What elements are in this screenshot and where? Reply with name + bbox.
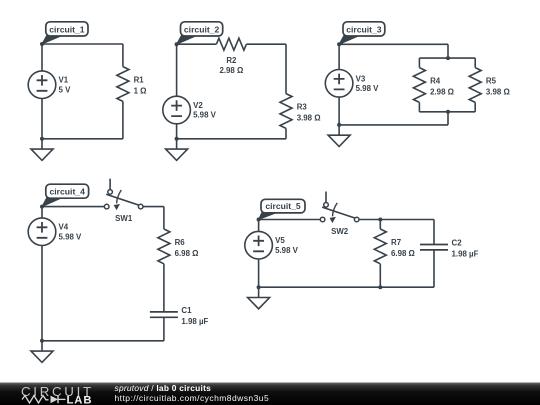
svg-text:5 V: 5 V [59, 85, 72, 94]
node c5 bottom-left [257, 285, 261, 289]
svg-text:V5: V5 [275, 236, 285, 245]
voltage source V1 [28, 71, 56, 99]
wire c2 left lower [176, 124, 178, 139]
wire c3 parallel top bar [419, 57, 475, 59]
label callout circuit_2 pointer [177, 35, 198, 44]
svg-text:V4: V4 [59, 223, 69, 232]
label callout circuit_3 box [343, 22, 385, 36]
footer bar [0, 383, 540, 405]
svg-text:circuit_5: circuit_5 [265, 201, 301, 211]
switch SW2 actuation arrow [333, 203, 338, 216]
wire c1 left upper [41, 44, 43, 71]
switch SW2 blade [322, 207, 355, 218]
voltage source V5 [245, 231, 273, 259]
wire c1 bottom [42, 138, 123, 140]
svg-text:R7: R7 [391, 238, 402, 247]
svg-text:V1: V1 [59, 76, 69, 85]
ground c1 stem [41, 139, 43, 149]
wire c4 top right [143, 206, 164, 208]
svg-text:circuit_3: circuit_3 [346, 24, 382, 34]
svg-text:R2: R2 [226, 56, 237, 65]
svg-text:3.98 Ω: 3.98 Ω [486, 88, 510, 97]
svg-text:2.98 Ω: 2.98 Ω [430, 88, 454, 97]
wire c4 left lower [41, 246, 43, 341]
capacitor C1 [150, 312, 178, 317]
switch SW1 actuation arrow [117, 190, 122, 203]
label callout circuit_2 box [181, 22, 223, 36]
node c3 top-left [337, 42, 341, 46]
label callout circuit_4 pointer [42, 197, 63, 206]
svg-text:circuit_1: circuit_1 [49, 24, 85, 34]
svg-text:1.98 µF: 1.98 µF [452, 250, 479, 259]
wire c5 top right [359, 219, 434, 221]
wire c5 R7 bottom stub [379, 264, 381, 287]
svg-text:5.98 V: 5.98 V [356, 84, 380, 93]
svg-text:SW2: SW2 [331, 227, 349, 236]
switch SW1 left terminal [104, 204, 109, 209]
wire c2 top left [177, 43, 217, 45]
svg-text:1 Ω: 1 Ω [134, 87, 147, 96]
wire c2 top right [246, 43, 286, 45]
wire c4 right mid [163, 264, 165, 312]
svg-text:6.98 Ω: 6.98 Ω [175, 249, 199, 258]
wire c3 R4 bottom stub [418, 102, 420, 111]
resistor R6 [158, 229, 170, 264]
wire c3 left lower [338, 97, 340, 125]
wire c4 right lower [163, 317, 165, 340]
label callout circuit_4 box [46, 184, 89, 198]
ground c2 stem [176, 139, 178, 149]
svg-text:5.98 V: 5.98 V [193, 111, 217, 120]
svg-text:LAB: LAB [67, 395, 93, 405]
node c2 bottom-left [175, 137, 179, 141]
ground c4 stem [41, 341, 43, 351]
ground c5 triangle [248, 298, 270, 309]
resistor R5 [469, 68, 481, 103]
svg-text:R3: R3 [297, 103, 308, 112]
wire c3 top [339, 43, 448, 45]
svg-text:circuit_4: circuit_4 [50, 187, 86, 197]
svg-text:R1: R1 [134, 76, 145, 85]
wire c2 left upper [176, 44, 178, 96]
resistor R1 [117, 67, 129, 102]
CircuitLab logo diode [51, 396, 59, 404]
node c3 bottom-left [337, 123, 341, 127]
label callout circuit_3 pointer [339, 35, 360, 44]
wire c4 left upper [41, 207, 43, 218]
ground c3 stem [338, 125, 340, 135]
switch SW1 right terminal [138, 204, 143, 209]
wire c5 left upper [258, 220, 260, 232]
node c1 top-left [40, 42, 44, 46]
svg-text:sprutovd / lab 0 circuits: sprutovd / lab 0 circuits [115, 383, 212, 393]
svg-text:R5: R5 [486, 77, 497, 86]
wire c4 right upper [163, 207, 165, 229]
svg-text:R6: R6 [175, 238, 186, 247]
wire c5 right lower [433, 250, 435, 287]
node c4 top-left [40, 205, 44, 209]
switch SW2 right terminal [354, 217, 359, 222]
node c5 R7 bottom [378, 285, 382, 289]
voltage source V2 [163, 96, 191, 124]
node c2 top-left [175, 42, 179, 46]
wire c2 right lower [285, 128, 287, 138]
label callout circuit_1 pointer [42, 35, 63, 44]
ground c3 triangle [328, 135, 350, 146]
ground c2 triangle [166, 149, 188, 160]
CircuitLab logo resistor squiggle [22, 396, 49, 404]
svg-text:V2: V2 [193, 101, 203, 110]
wire c5 right upper [433, 220, 435, 245]
node c5 R7 top [378, 218, 382, 222]
resistor R3 [280, 94, 292, 129]
node c3 parallel bottom [446, 110, 450, 114]
wire c3 parallel bottom bar [419, 111, 475, 113]
ground c5 stem [258, 287, 260, 297]
svg-text:C2: C2 [452, 239, 463, 248]
wire c5 bottom [259, 286, 434, 288]
wire c3 R4 top stub [418, 58, 420, 68]
wire c3 R5 bottom stub [474, 102, 476, 111]
svg-text:R4: R4 [430, 77, 441, 86]
node c4 bottom-left [40, 339, 44, 343]
switch SW1 blade [106, 194, 139, 205]
wire c5 top left [259, 219, 321, 221]
wire c3 drop to parallel [447, 44, 449, 58]
ground c1 triangle [31, 149, 53, 160]
svg-text:6.98 Ω: 6.98 Ω [391, 249, 415, 258]
wire c2 right upper [285, 44, 287, 93]
wire c5 left lower [258, 259, 260, 287]
switch SW1 stem [109, 179, 111, 190]
voltage source V4 [28, 218, 56, 246]
node c3 parallel top [446, 56, 450, 60]
wire c3 rise from parallel [447, 112, 449, 125]
label callout circuit_1 box [46, 22, 88, 36]
svg-text:http://circuitlab.com/cychm8dw: http://circuitlab.com/cychm8dwsn3u5 [115, 393, 270, 403]
wire c1 top [42, 43, 123, 45]
wire c4 top left [42, 206, 104, 208]
wire c3 bottom [339, 124, 448, 126]
node c1 bottom-left [40, 137, 44, 141]
label callout circuit_5 pointer [259, 212, 279, 220]
resistor R7 [374, 229, 386, 264]
resistor R2 [216, 38, 246, 50]
capacitor C2 [420, 245, 448, 250]
svg-text:3.98 Ω: 3.98 Ω [297, 114, 321, 123]
wire c1 left lower [41, 99, 43, 139]
svg-text:5.98 V: 5.98 V [275, 246, 299, 255]
switch SW2 pivot circle [324, 203, 329, 208]
switch SW2 left terminal [320, 217, 325, 222]
wire c5 R7 top stub [379, 220, 381, 230]
switch SW1 pivot circle [108, 190, 113, 195]
wire c4 bottom [42, 340, 164, 342]
ground c4 triangle [31, 351, 53, 362]
switch SW2 stem [325, 192, 327, 203]
wire c1 right lower [122, 101, 124, 138]
node c5 top-left [257, 218, 261, 222]
svg-text:2.98 Ω: 2.98 Ω [219, 66, 243, 75]
label callout circuit_5 box [261, 199, 305, 213]
svg-text:V3: V3 [356, 74, 366, 83]
wire c3 left upper [338, 44, 340, 69]
wire c3 R5 top stub [474, 58, 476, 68]
svg-text:circuit_2: circuit_2 [184, 24, 220, 34]
wire c2 bottom [177, 138, 286, 140]
svg-text:SW1: SW1 [115, 214, 133, 223]
svg-text:C1: C1 [181, 306, 192, 315]
svg-text:1.98 µF: 1.98 µF [181, 317, 208, 326]
resistor R4 [413, 68, 425, 103]
wire c1 right upper [122, 44, 124, 67]
svg-text:5.98 V: 5.98 V [59, 232, 83, 241]
voltage source V3 [325, 70, 353, 98]
